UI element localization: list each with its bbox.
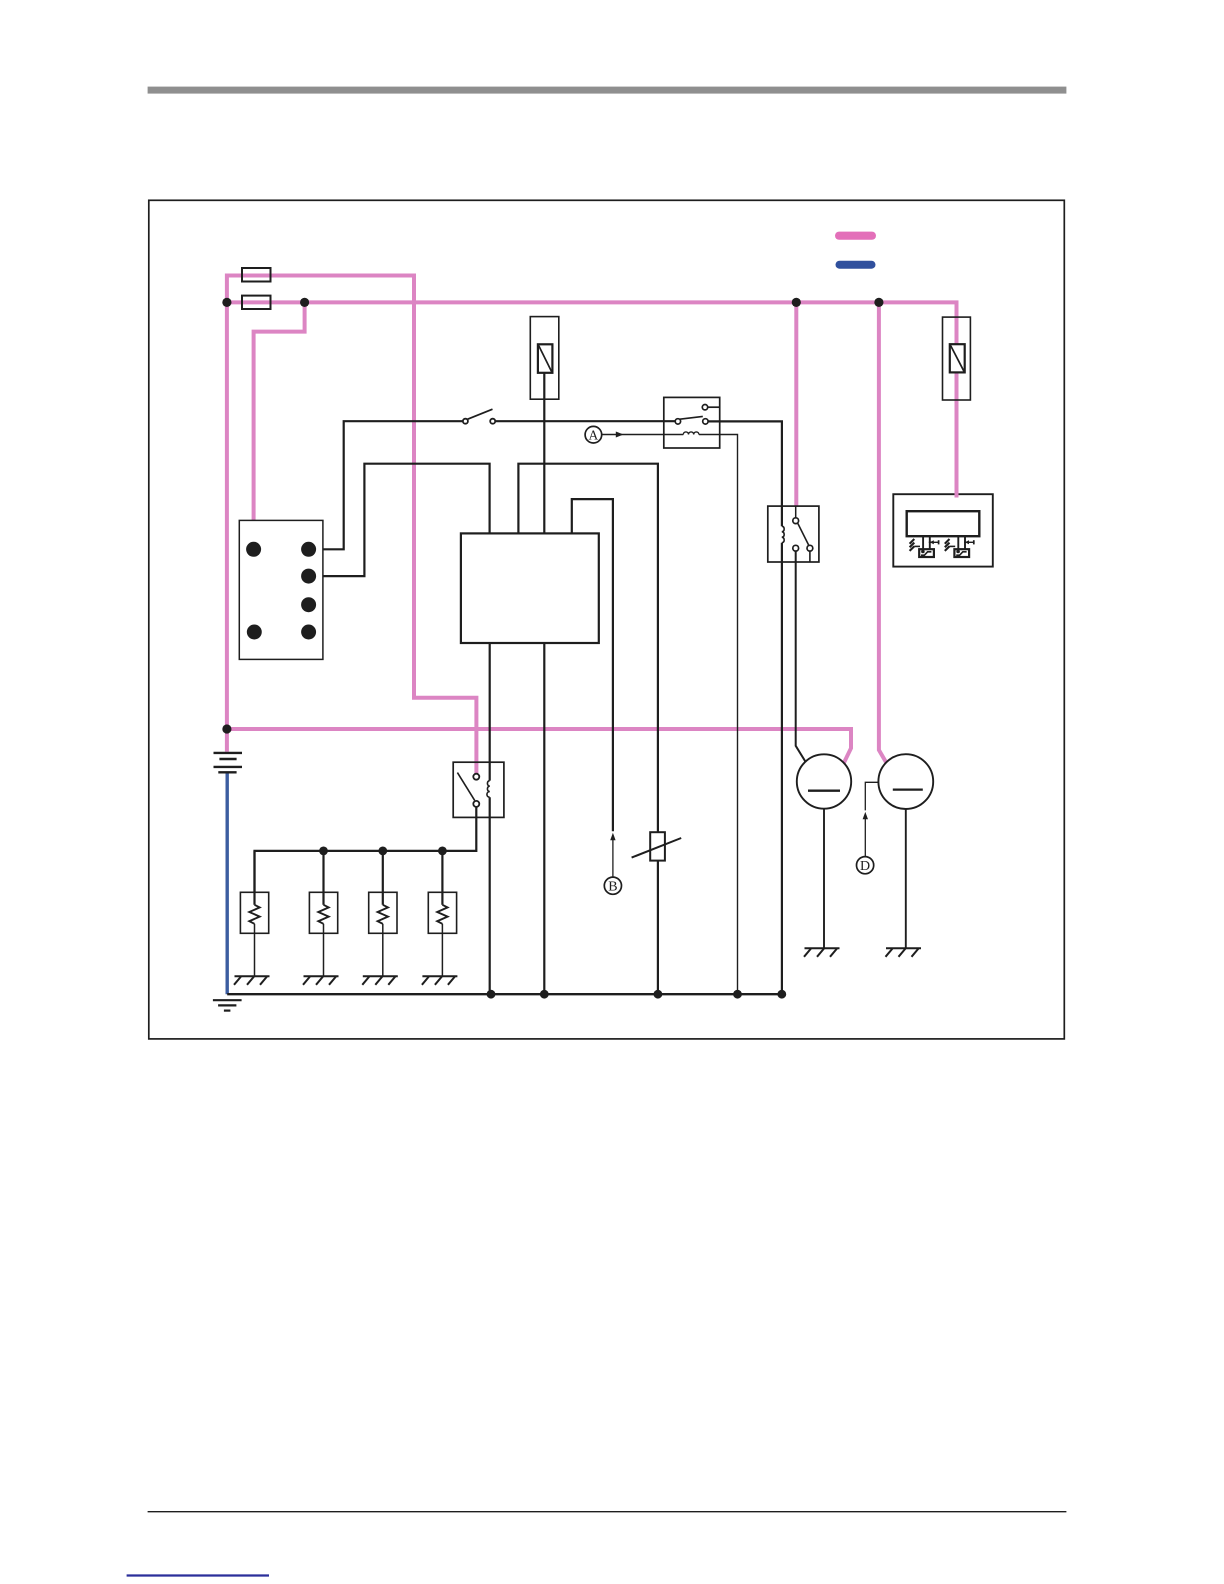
relay K3 coil bumps (782, 526, 784, 543)
chassis ground (R1) (234, 976, 270, 985)
junction dot bus R4 (438, 847, 447, 856)
resistor R4 (428, 851, 456, 976)
diagram border frame (149, 200, 1065, 1039)
resistor R2 (309, 851, 337, 976)
fuse F2 (242, 296, 271, 309)
variable resistor (sensor) (632, 832, 682, 860)
ground bus rail (227, 993, 782, 995)
terminal A (585, 426, 602, 443)
wire: lamp L2 to chassis ground (905, 809, 907, 948)
glow relay K2 coil bumps (487, 781, 490, 798)
connector C1 (239, 520, 323, 659)
lamp L1 (797, 754, 851, 808)
wire: ECU to glow relay coil to ground bus (489, 643, 491, 994)
wire: relay K1 contact to relay K3 coil and ground bus (708, 421, 782, 994)
terminal B (604, 833, 621, 895)
wire: fuse F3 to ECU (543, 373, 545, 534)
junction dot pink rail left (222, 298, 231, 307)
resistor R3 (369, 851, 397, 976)
wire: switch to relay K1 contact (495, 420, 675, 422)
chassis ground (R3) (362, 976, 398, 985)
glow relay K2 (453, 762, 504, 817)
svg-text:D: D (860, 859, 870, 874)
wire pink: left battery drop (225, 274, 229, 752)
wire pink: drop to lamp L2 (879, 302, 887, 763)
chassis ground (R2) (303, 976, 339, 985)
chassis ground (L1) (804, 948, 840, 957)
wire: ECU to ground bus (middle) (543, 643, 545, 994)
fuse F3 (middle) (530, 317, 559, 400)
legend pink bar (835, 232, 876, 240)
earth ground (battery) (213, 1000, 242, 1010)
wire: relay K3 to lamp L1 (796, 551, 807, 763)
junction dot ground bus 1 (487, 990, 496, 999)
control unit U2 box (right) (893, 494, 993, 566)
junction dot bus R3 (378, 847, 387, 856)
fuse F1 (242, 268, 271, 282)
page top gray rule (148, 87, 1067, 94)
resistor R1 (240, 851, 268, 976)
wire pink: fuse F1 feed rail to glow relay (227, 276, 477, 774)
wire blue: battery negative to ground bus (225, 772, 228, 995)
fuse F4 (right) (943, 317, 971, 400)
wire pink: drop to relay K3 contact (794, 302, 798, 506)
wire: lamp L1 to chassis ground (823, 809, 825, 948)
footer blue underline (127, 1574, 269, 1576)
terminal D (857, 782, 879, 874)
junction dot pink rail branch (300, 298, 309, 307)
junction dot ground bus 2 (540, 990, 549, 999)
svg-text:B: B (608, 880, 617, 895)
lamp L2 (878, 754, 933, 809)
relay K3 (bottom right) (768, 506, 819, 562)
injector symbol 2 (945, 536, 974, 557)
wire: connector pin 2 to ECU (309, 464, 490, 576)
control unit inner bar (907, 511, 980, 536)
relay K1 coil bumps (683, 432, 699, 435)
junction dot lamp rail (222, 724, 231, 733)
wire: ECU to terminal B (572, 499, 613, 831)
wire pink: lamp rail from battery junction to lamp L1 (227, 729, 851, 763)
chassis ground (R4) (422, 976, 458, 985)
ignition switch S1 (463, 409, 495, 424)
battery (214, 753, 243, 772)
junction dot pink rail K3 (792, 298, 801, 307)
junction dot ground bus 3 (654, 990, 663, 999)
wire: switch line from connector pin 1 (309, 421, 463, 549)
wire: relay K3 second contact stub (809, 551, 811, 562)
footer rule (148, 1511, 1067, 1513)
chassis ground (L2) (886, 948, 922, 957)
junction dot pink rail L2 (874, 298, 883, 307)
junction dot ground bus end (777, 990, 786, 999)
wire pink: main rail to fuse F4 (225, 302, 957, 344)
wire: relay K1 coil line with terminal A feed (602, 435, 738, 995)
svg-text:A: A (589, 428, 599, 443)
junction dot ground bus 4 (733, 990, 742, 999)
legend blue bar (836, 261, 876, 269)
wire: glow relay to resistor bus (255, 807, 477, 892)
arrow on terminal A line (616, 432, 624, 438)
wire: ECU to variable resistor to ground bus (518, 464, 658, 995)
wire pink: fuse F4 to control unit (955, 372, 959, 497)
junction dot bus R2 (319, 847, 328, 856)
relay K1 (top) (664, 397, 720, 448)
ECU U1 (461, 533, 599, 643)
injector symbol 1 (910, 536, 939, 557)
wire pink: branch to connector C1 (254, 302, 305, 545)
